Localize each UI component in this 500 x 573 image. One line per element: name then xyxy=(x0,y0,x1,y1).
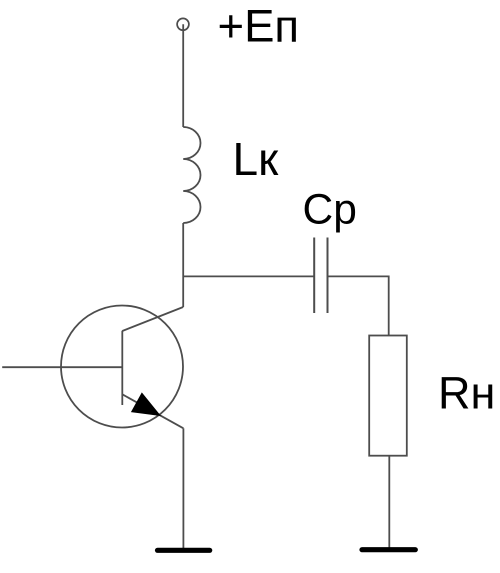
wire inductor to collector node xyxy=(182,223,184,307)
wire base lead xyxy=(2,366,122,368)
capacitor Cp right plate xyxy=(327,238,329,314)
transistor VT1 emitter arrow xyxy=(132,393,160,415)
capacitor Cp left plate xyxy=(313,238,315,314)
wire capacitor to bend xyxy=(328,276,389,335)
svg-text:Lк: Lк xyxy=(233,133,280,185)
svg-text:Ср: Ср xyxy=(303,187,357,234)
transistor VT1 collector diagonal xyxy=(122,307,183,331)
inductor Lk xyxy=(183,127,200,223)
transistor VT1 body circle xyxy=(61,306,183,428)
wire emitter to ground xyxy=(182,428,184,548)
resistor Rn body xyxy=(369,336,407,456)
wire terminal to inductor xyxy=(182,24,184,127)
power terminal circle +Ep xyxy=(177,18,189,30)
ground left xyxy=(158,548,210,553)
wire resistor to ground xyxy=(388,456,390,548)
transistor VT1 base bar xyxy=(121,331,123,405)
svg-text:+Еп: +Еп xyxy=(218,0,300,51)
wire node to capacitor left plate xyxy=(183,275,314,277)
ground right xyxy=(362,547,415,552)
svg-text:Rн: Rн xyxy=(438,367,495,418)
transistor VT1 emitter diagonal xyxy=(122,394,183,428)
